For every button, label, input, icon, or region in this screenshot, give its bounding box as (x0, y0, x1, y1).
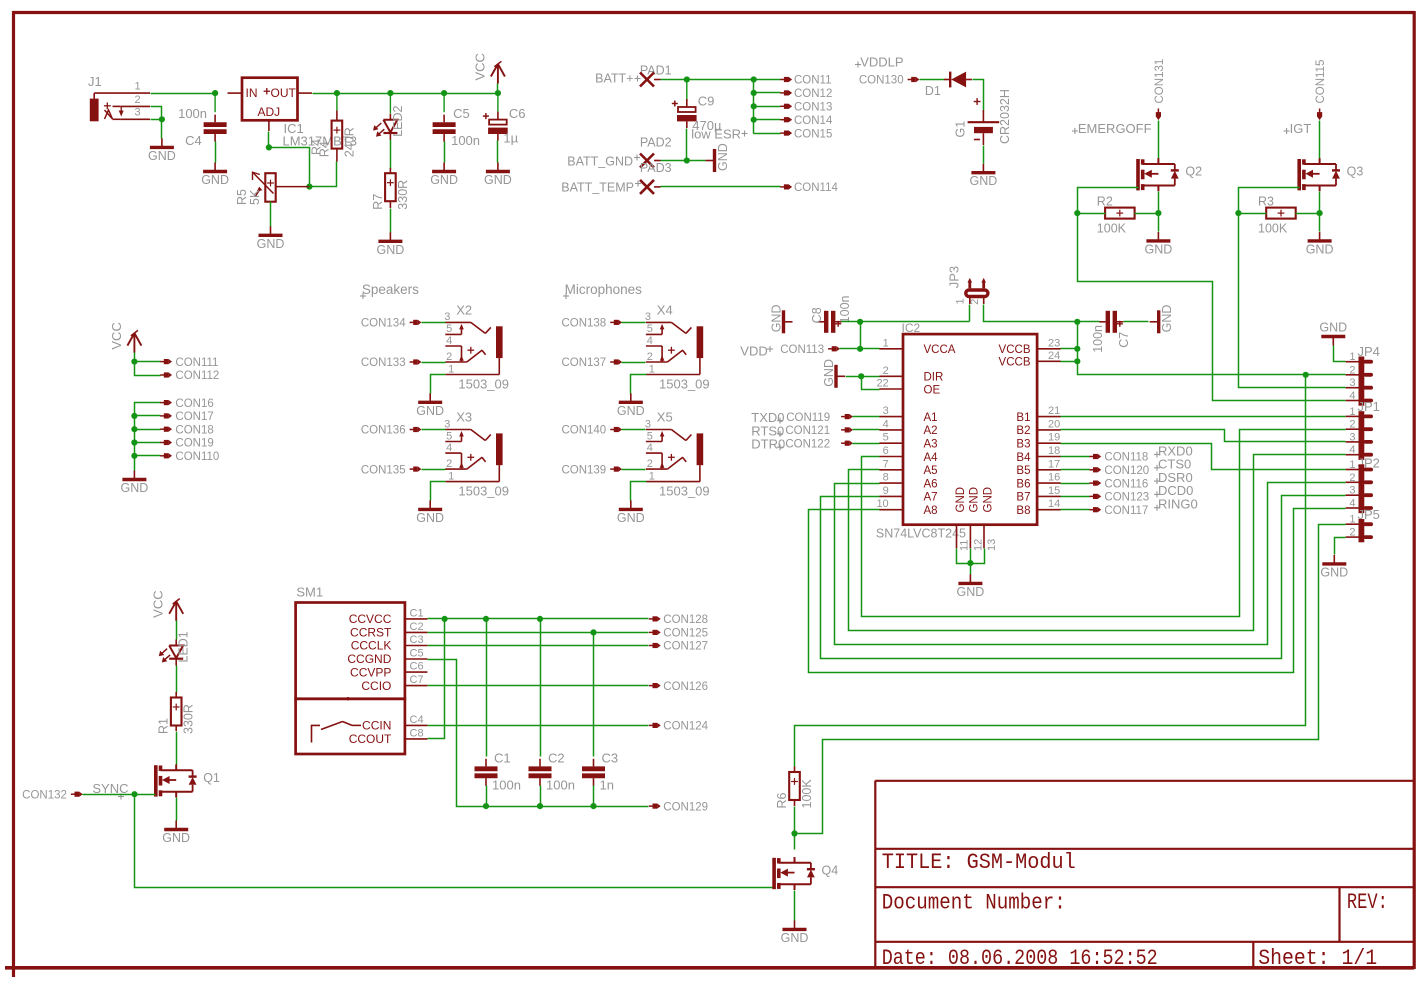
wire (661, 160, 706, 162)
wire (809, 509, 1346, 673)
svg-text:TITLE: GSM-Modul: TITLE: GSM-Modul (882, 850, 1076, 875)
svg-text:20: 20 (1048, 418, 1060, 430)
wire (1078, 322, 1346, 375)
VCC supply symbol (472, 53, 505, 83)
svg-text:CCGND: CCGND (347, 652, 391, 666)
svg-text:1n: 1n (600, 777, 614, 792)
transistor Q1 (156, 764, 220, 797)
ground (416, 500, 444, 525)
wire (969, 305, 971, 322)
svg-text:2: 2 (647, 458, 653, 470)
svg-text:1: 1 (1349, 514, 1355, 526)
junction (967, 560, 973, 566)
svg-text:B8: B8 (1016, 505, 1030, 517)
wire (135, 415, 161, 417)
capacitor C5 (433, 106, 480, 148)
net label VDD (740, 343, 773, 358)
wire (631, 482, 647, 501)
svg-text:GND: GND (970, 174, 998, 188)
svg-text:Q1: Q1 (203, 771, 220, 785)
svg-text:R3: R3 (1258, 195, 1274, 209)
svg-text:12: 12 (972, 539, 984, 551)
svg-text:A6: A6 (924, 478, 938, 490)
VCC supply symbol (109, 322, 141, 352)
capacitor C8 (810, 295, 852, 332)
svg-text:IC2: IC2 (902, 321, 921, 335)
svg-text:21: 21 (1048, 405, 1060, 417)
wire (1239, 213, 1267, 215)
svg-text:GND: GND (822, 359, 836, 387)
svg-text:EMERGOFF: EMERGOFF (1078, 121, 1152, 136)
pin CON16 (160, 398, 214, 410)
pin CON124 (649, 721, 709, 733)
junction (537, 803, 543, 809)
svg-text:CCRST: CCRST (350, 626, 392, 640)
svg-text:CON126: CON126 (663, 681, 708, 693)
wire (1078, 321, 1100, 323)
junction (306, 184, 312, 190)
wire (1061, 430, 1346, 442)
battery G1 CR2032H (954, 89, 1013, 145)
svg-text:BATT_GND: BATT_GND (567, 155, 633, 169)
pin CON138 (561, 318, 622, 330)
svg-text:2: 2 (1349, 527, 1355, 539)
svg-text:GND: GND (430, 173, 458, 187)
wire (135, 361, 161, 363)
junction (442, 616, 448, 622)
pin CON123 (1089, 492, 1149, 504)
junction (1074, 346, 1080, 352)
svg-text:100n: 100n (546, 777, 575, 792)
capacitor C3 (582, 750, 618, 792)
svg-text:X2: X2 (456, 302, 472, 317)
svg-text:GND: GND (982, 487, 994, 513)
pin CON122 (785, 438, 853, 450)
ground (201, 163, 229, 188)
pin CON130 (859, 75, 920, 87)
svg-text:1: 1 (448, 363, 454, 375)
svg-text:GND: GND (955, 487, 967, 513)
sheet text (1258, 946, 1377, 971)
wire (83, 794, 156, 796)
svg-text:DIR: DIR (924, 372, 944, 384)
net label BATT_GND (567, 155, 640, 169)
svg-text:OUT: OUT (271, 86, 297, 100)
ground (1306, 232, 1334, 257)
svg-text:1503_09: 1503_09 (659, 483, 710, 498)
pin CON129 (649, 801, 708, 813)
svg-text:low ESR: low ESR (691, 127, 741, 142)
wire (622, 429, 646, 431)
wire (1061, 469, 1090, 471)
junction (131, 791, 137, 797)
svg-text:13: 13 (986, 539, 998, 551)
connector JP5 header (1346, 507, 1380, 542)
svg-text:2: 2 (446, 351, 452, 363)
svg-text:GND: GND (1320, 565, 1348, 579)
wire (862, 430, 1346, 617)
pin CON133 (361, 357, 422, 369)
svg-text:JP3: JP3 (947, 266, 962, 288)
svg-text:R6: R6 (775, 792, 789, 808)
connector X4 (1503_09 jack) (645, 302, 710, 391)
capacitor C6 (483, 106, 526, 146)
svg-text:GND: GND (377, 243, 405, 257)
junction (1303, 372, 1309, 378)
svg-text:18: 18 (1048, 445, 1060, 457)
net label BATT+ (595, 71, 640, 85)
svg-text:100n: 100n (1091, 325, 1105, 353)
svg-text:A5: A5 (924, 465, 938, 477)
ground (377, 232, 405, 256)
LED LED1 (159, 631, 191, 665)
svg-text:2: 2 (883, 365, 889, 377)
wire (486, 619, 488, 757)
junction (590, 803, 596, 809)
svg-text:CON121: CON121 (785, 425, 830, 437)
svg-text:1: 1 (1349, 459, 1355, 471)
svg-text:3: 3 (444, 418, 450, 430)
svg-text:CON132: CON132 (22, 789, 67, 801)
pin CON136 (361, 425, 422, 437)
svg-text:C9: C9 (698, 94, 715, 109)
svg-text:1: 1 (649, 363, 655, 375)
svg-text:Document Number:: Document Number: (882, 891, 1066, 916)
svg-text:C1: C1 (494, 750, 511, 765)
wire (622, 469, 646, 471)
svg-text:CON137: CON137 (561, 357, 606, 369)
pin CON112 (160, 370, 219, 382)
svg-text:BATT_TEMP: BATT_TEMP (561, 180, 634, 194)
svg-text:CON138: CON138 (561, 318, 606, 330)
svg-text:C3: C3 (410, 634, 424, 646)
wire (422, 469, 446, 471)
connector SM1 (SIM holder) (296, 585, 428, 754)
junction (159, 116, 165, 122)
svg-text:GND: GND (617, 404, 645, 418)
svg-text:Q2: Q2 (1185, 165, 1202, 179)
pin CON135 (361, 464, 422, 476)
pin CON13 (780, 102, 832, 114)
pin CON121 (785, 425, 853, 437)
svg-text:CON17: CON17 (175, 411, 213, 423)
pin CON137 (561, 357, 622, 369)
junction (483, 616, 489, 622)
svg-text:1: 1 (135, 81, 141, 93)
svg-text:B3: B3 (1016, 439, 1030, 451)
wire (853, 443, 880, 445)
svg-text:A8: A8 (924, 505, 938, 517)
svg-text:GND: GND (969, 487, 981, 513)
svg-text:C7: C7 (410, 674, 424, 686)
svg-text:CON12: CON12 (794, 88, 832, 100)
pad PAD1 (640, 64, 672, 87)
wire (431, 482, 446, 501)
svg-text:24: 24 (1048, 350, 1060, 362)
wire (1135, 213, 1159, 215)
pin CON114 (780, 182, 838, 194)
pin CON132 (22, 789, 83, 801)
svg-text:CON135: CON135 (361, 464, 406, 476)
svg-text:2: 2 (1349, 364, 1355, 376)
svg-text:GND: GND (1306, 242, 1334, 256)
pin CON140 (561, 425, 622, 437)
svg-text:CON11: CON11 (794, 75, 832, 87)
svg-text:CON110: CON110 (175, 451, 219, 463)
svg-text:CON119: CON119 (786, 412, 830, 424)
svg-text:CON129: CON129 (663, 801, 708, 813)
wire (1061, 348, 1078, 350)
svg-text:CON127: CON127 (663, 641, 708, 653)
ground above JP4 (1319, 321, 1347, 346)
svg-text:GND: GND (121, 481, 149, 495)
svg-text:3: 3 (444, 311, 450, 323)
resistor R6 100K (794, 767, 796, 807)
junction (590, 629, 596, 635)
ground (430, 163, 458, 188)
svg-text:CCVCC: CCVCC (349, 612, 392, 626)
connector X2 (1503_09 jack) (444, 302, 509, 391)
svg-text:C8: C8 (410, 727, 424, 739)
wire (1061, 444, 1346, 470)
wire (135, 442, 161, 444)
svg-text:23: 23 (1048, 337, 1060, 349)
svg-text:16: 16 (1048, 472, 1060, 484)
pin CON120 (1089, 465, 1149, 477)
ground (1145, 232, 1173, 257)
pin CON118 (1089, 452, 1148, 464)
wire (622, 322, 646, 324)
pin CON18 (160, 424, 214, 436)
wire (1061, 416, 1346, 418)
connector X3 (1503_09 jack) (444, 410, 509, 499)
svg-text:CON14: CON14 (794, 115, 833, 127)
wire (1124, 321, 1149, 323)
resistor R3 (1258, 195, 1296, 236)
svg-text:ADJ: ADJ (258, 105, 281, 119)
wire (957, 549, 985, 564)
LED LED2 (389, 93, 391, 113)
connector X5 (1503_09 jack) (645, 410, 710, 499)
pin CON19 (160, 438, 214, 450)
wire (176, 621, 178, 640)
svg-text:CON116: CON116 (1104, 478, 1148, 490)
svg-text:B1: B1 (1016, 412, 1030, 424)
svg-text:CON13: CON13 (794, 102, 832, 114)
ground (617, 500, 645, 525)
connector JP4 header (1346, 344, 1380, 406)
svg-text:Microphones: Microphones (565, 282, 643, 297)
svg-text:2: 2 (135, 94, 141, 106)
transistor Q2 (1138, 158, 1202, 191)
svg-text:5: 5 (647, 430, 653, 442)
capacitor C9 (672, 94, 722, 134)
capacitor C9 470u (686, 80, 688, 100)
svg-text:GND: GND (617, 511, 645, 525)
svg-text:100n: 100n (492, 777, 521, 792)
pin CON139 (561, 464, 622, 476)
svg-text:Q4: Q4 (822, 864, 839, 878)
svg-text:14: 14 (1048, 498, 1060, 510)
junction (1074, 319, 1080, 325)
section label Speakers (360, 282, 419, 299)
capacitor C6 (497, 93, 499, 112)
svg-text:GND: GND (1160, 305, 1174, 333)
junction (266, 144, 272, 150)
junction (1235, 210, 1241, 216)
svg-text:X4: X4 (657, 302, 673, 317)
junction (1317, 210, 1323, 216)
ground (822, 359, 845, 388)
pin CON131 (1154, 59, 1166, 120)
wire (1319, 121, 1321, 159)
wire (842, 321, 970, 323)
svg-text:VCC: VCC (472, 53, 487, 80)
connector JP1 header (1346, 399, 1380, 460)
svg-text:A1: A1 (924, 412, 938, 424)
svg-text:3: 3 (645, 418, 651, 430)
ground (1150, 305, 1175, 334)
wire (135, 403, 161, 471)
svg-text:C4: C4 (185, 133, 202, 148)
junction (537, 616, 543, 622)
svg-text:G1: G1 (954, 121, 968, 138)
svg-text:4: 4 (1349, 390, 1355, 402)
junction (857, 346, 863, 352)
junction (131, 426, 137, 432)
svg-text:B2: B2 (1016, 425, 1030, 437)
svg-text:4: 4 (446, 442, 452, 454)
wire (1061, 483, 1090, 485)
ground (121, 471, 149, 496)
svg-text:VDDLP: VDDLP (860, 54, 903, 69)
wire (849, 455, 1346, 631)
svg-text:REV:: REV: (1347, 890, 1388, 915)
svg-text:CON131: CON131 (1154, 59, 1166, 104)
pin CON17 (160, 411, 214, 423)
svg-text:3: 3 (135, 107, 141, 119)
svg-text:1µ: 1µ (503, 131, 518, 146)
date text (882, 946, 1158, 971)
wire (753, 80, 755, 134)
svg-text:SM1: SM1 (296, 585, 323, 600)
wire (622, 362, 646, 364)
svg-text:1: 1 (1349, 351, 1355, 363)
wire (422, 322, 446, 324)
wire (835, 483, 1346, 645)
svg-text:VCCB: VCCB (999, 344, 1031, 356)
label low ESR (691, 127, 747, 142)
svg-text:GND: GND (201, 173, 229, 187)
junction (131, 439, 137, 445)
net label SYNC (92, 781, 128, 799)
wire (1334, 346, 1346, 362)
wire (486, 786, 488, 807)
wire (862, 377, 880, 390)
pin CON110 (160, 451, 219, 463)
svg-text:GND: GND (716, 143, 730, 171)
wire (1158, 121, 1160, 159)
wire (270, 202, 272, 227)
wire (1061, 496, 1090, 498)
svg-text:GND: GND (1319, 321, 1347, 335)
wire (428, 618, 649, 620)
svg-text:3: 3 (1349, 431, 1355, 443)
net label DCD0 (1154, 483, 1193, 498)
junction (791, 830, 797, 836)
resistor R7 330R (389, 168, 391, 208)
svg-text:C5: C5 (453, 106, 470, 121)
svg-text:CR2032H: CR2032H (998, 89, 1012, 144)
wire (1158, 192, 1160, 232)
wire (134, 353, 136, 362)
REV label (1347, 890, 1388, 915)
svg-text:2: 2 (446, 458, 452, 470)
svg-text:C4: C4 (410, 714, 424, 726)
wire (1319, 192, 1321, 232)
ground (1320, 555, 1348, 580)
wire (593, 633, 595, 757)
wire (1061, 456, 1090, 458)
junction (131, 453, 137, 459)
wire (422, 362, 446, 364)
svg-text:240R: 240R (342, 127, 356, 157)
svg-text:J1: J1 (88, 74, 102, 89)
wire (390, 140, 392, 169)
resistor R4 240R (336, 93, 338, 162)
wire (151, 93, 216, 95)
wire (795, 375, 1306, 767)
svg-text:SN74LVC8T245: SN74LVC8T245 (876, 527, 966, 541)
svg-text:OE: OE (924, 384, 941, 396)
junction (751, 103, 757, 109)
svg-text:3: 3 (883, 405, 889, 417)
svg-text:CCVPP: CCVPP (350, 665, 391, 679)
svg-text:9: 9 (883, 485, 889, 497)
svg-text:3: 3 (1349, 485, 1355, 497)
connector JP3 (947, 266, 988, 305)
resistor R2 (1097, 195, 1135, 236)
svg-text:CON123: CON123 (1104, 492, 1149, 504)
svg-text:CON113: CON113 (780, 344, 824, 356)
ground (162, 821, 190, 846)
ground (416, 393, 444, 418)
svg-text:2: 2 (647, 351, 653, 363)
capacitor C1 (475, 750, 521, 792)
svg-text:15: 15 (1048, 485, 1060, 497)
junction (1155, 210, 1161, 216)
svg-text:CON111: CON111 (175, 357, 218, 369)
svg-text:100K: 100K (1097, 222, 1127, 236)
svg-text:4: 4 (1349, 444, 1355, 456)
VCC supply symbol (151, 590, 184, 620)
svg-text:4: 4 (446, 335, 452, 347)
svg-text:Speakers: Speakers (362, 282, 419, 297)
svg-text:5: 5 (883, 432, 889, 444)
wire (970, 549, 972, 575)
svg-text:CON120: CON120 (1104, 465, 1149, 477)
svg-text:GND: GND (416, 511, 444, 525)
svg-text:GND: GND (957, 585, 985, 599)
wire (215, 142, 217, 163)
title block (875, 781, 1414, 968)
pin CON119 (786, 412, 853, 424)
svg-text:4: 4 (883, 418, 889, 430)
svg-text:17: 17 (1048, 458, 1060, 470)
ground (770, 305, 793, 334)
ground (957, 574, 985, 599)
svg-text:R5: R5 (235, 189, 249, 205)
